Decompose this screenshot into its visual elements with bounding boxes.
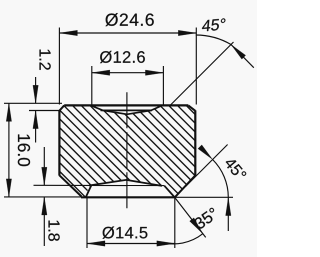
- extension line right of Ø14.5: [174, 198, 176, 249]
- 45deg top: arc: [196, 35, 231, 45]
- part outline: bottom visible rim edge: [81, 196, 175, 198]
- dimension 1.2 lower line with up arrow: [35, 111, 37, 143]
- arrow left Ø14.5: [87, 241, 105, 246]
- bottom recess: right wall: [164, 186, 174, 198]
- top recess: chord line: [101, 109, 153, 111]
- dimension line Ø24.6: [59, 32, 196, 34]
- dimension line Ø12.6: [92, 72, 164, 74]
- extension line right of Ø12.6: [162, 66, 164, 105]
- dimension line Ø14.5: [87, 243, 175, 245]
- centerline vertical: [126, 92, 128, 208]
- 45deg bottom-right: chamfer extension line at 45: [186, 145, 228, 187]
- arrow bottom 16.0: [6, 179, 11, 197]
- label 1.8 rotated: [48, 221, 59, 241]
- label Ø12.6: [100, 51, 145, 63]
- part outline: top-left chamfer: [60, 105, 65, 110]
- 45deg bottom-right: arrow head at chamfer-extension crossing: [198, 145, 215, 162]
- 45deg bottom-right: arrow at bottom end with tail: [227, 198, 229, 231]
- dimension 1.2 upper line with down arrow: [35, 77, 37, 103]
- arrow left Ø24.6: [59, 30, 77, 35]
- dimension 1.8 upper line with down arrow: [43, 147, 45, 185]
- extension line right of Ø24.6: [195, 28, 197, 105]
- part outline: right edge: [194, 110, 196, 175]
- bottom recess: left wall: [86, 185, 92, 197]
- part outline: top face: [64, 104, 188, 106]
- bottom recess: ceiling line with left extension (1.8 upper reference): [34, 184, 165, 186]
- 45deg bottom-right: arc: [213, 160, 229, 198]
- 45deg top: chamfer reference diagonal at 45: [170, 42, 234, 106]
- 45deg top: arrow tail overrun: [231, 45, 254, 68]
- 45deg bottom-right: bottom face extension line: [175, 196, 233, 198]
- extension line left of Ø24.6: [58, 28, 60, 105]
- hatching of sectioned body: [40, 0, 230, 257]
- arrow right Ø14.5: [157, 241, 175, 246]
- 35deg: arc: [160, 234, 203, 244]
- label 45deg top: [202, 18, 226, 31]
- top recess: right rim slant: [151, 106, 161, 110]
- reference line y103.3 (top ref of 1.2 and 16.0): [4, 102, 62, 104]
- arrow right Ø24.6: [178, 30, 196, 35]
- label Ø14.5: [103, 226, 148, 238]
- label Ø24.6: [105, 13, 153, 26]
- bottom face extension line to the left (16.0 bottom ref): [4, 196, 81, 198]
- part outline: left edge: [58, 110, 60, 175]
- part outline: left lower slant 45: [59, 175, 81, 196]
- top recess: left rim slant: [92, 106, 103, 110]
- top recess: cone V to apex: [103, 110, 151, 114]
- 45deg top: arrow head at arc end: [229, 43, 246, 60]
- reference line y110.5 (bottom ref of 1.2): [29, 110, 60, 112]
- 35deg: arrow head on wall extension: [190, 218, 205, 236]
- arrow right Ø12.6: [145, 70, 163, 75]
- 35deg: recess wall extension line: [175, 197, 206, 237]
- extension line left of Ø14.5: [86, 198, 88, 249]
- part outline: top-right chamfer: [188, 105, 195, 110]
- dimension 1.8 lower line with up arrow: [43, 197, 45, 246]
- label 45deg bottom rotated: [224, 156, 247, 181]
- dimension line 16.0: [8, 103, 10, 196]
- bottom recess: cone V apex up: [89, 180, 162, 186]
- label 1.2 rotated: [40, 50, 51, 70]
- label 35deg rotated: [193, 207, 219, 230]
- arrow top 16.0: [6, 103, 11, 121]
- label 16.0 rotated: [18, 134, 30, 166]
- extension line left of Ø12.6: [91, 66, 93, 105]
- arrow left Ø12.6: [92, 70, 110, 75]
- part outline: bottom-right 45 chamfer: [175, 175, 196, 197]
